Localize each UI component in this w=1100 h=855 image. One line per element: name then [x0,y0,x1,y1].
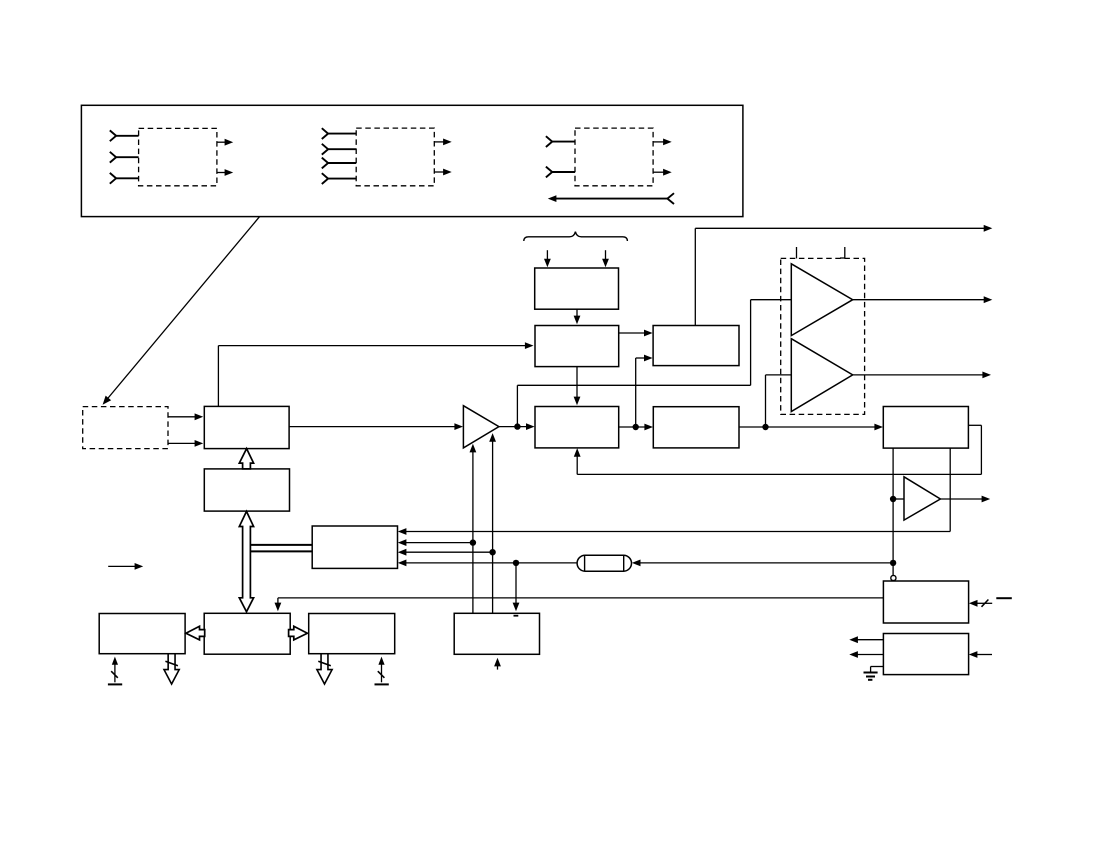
hollow arrow box3 to boxR [289,626,308,640]
output arrow 2 of block 3 [653,169,672,176]
bus arrow with slash into boxG right [969,600,992,607]
control line D with filter pill to box4 [398,555,893,571]
lone arrow at left middle [108,563,143,570]
top output wire from boxC [695,225,992,326]
boxB: second middle block [535,326,619,367]
input pin 4 of block 2 [322,173,356,184]
boxH output arrow 1 [849,636,883,643]
output arrow 2 of block 1 [217,169,233,176]
boxH output arrow 2 [849,651,883,658]
control line C from amp control 2 to box4 [398,549,496,556]
bus down-arrow with slash under boxR [317,654,332,684]
small monitor amp triangle [904,477,940,520]
riser from boxD-boxE wire to boxC [636,355,653,427]
box3: bottom middle block [204,613,290,654]
output arrow 1 of block 1 [217,139,233,146]
wire arrow dashed-box to box1 (upper) [168,413,203,420]
down arrow 2 into boxA [602,250,609,267]
open circle at boxG top [891,575,896,580]
boxF: right block [883,407,968,449]
boxD: DAC core block [535,407,619,448]
curly brace over boxA [524,232,628,241]
box1: main processing block [204,406,289,448]
wire junction riser to upper amp1 input [517,300,791,427]
dashed box: input block 1 [139,128,217,185]
boxE: block right of boxD [653,407,739,448]
wire junction to monitor amp input [893,498,904,500]
dashed box: input block 2 [356,128,434,186]
input pin 3 of block 1 [110,173,139,184]
input pin 2 of block 1 [110,152,139,163]
pin arrow with slash under boxR [375,657,389,685]
output arrow 1 of block 3 [653,139,672,146]
boxC: block right of boxB [653,326,739,366]
leftover dash inside bottom box [514,615,519,617]
amp2 output wire [853,372,991,379]
monitor amp output wire [940,496,990,503]
bottom box: clock block [454,613,539,654]
input pin 2 of block 3 [546,167,575,178]
down wire from line D junction into bottom box [513,563,520,611]
dashed box: input block 3 [575,128,653,186]
vertical wire from boxF bottom (right) to line A [949,448,951,531]
vertical control line 1 into amp bottom [470,444,477,614]
boxR: bottom right block [309,614,395,654]
pin arrow with slash under boxL [108,657,122,685]
wire boxB to boxD [574,367,581,406]
wire box1 to amp input [289,423,463,430]
output arrow 1 of block 2 [434,139,451,146]
wire boxE to boxF with junction [739,424,883,431]
amp1 triangle (upper output driver) [791,264,852,336]
interpolator amp triangle [463,406,499,448]
up arrow into bottom box [494,658,501,670]
return wire with left arrow and right fork [548,193,674,204]
bus down-arrow with slash under boxL [164,654,179,684]
boxA: top middle block [535,268,619,309]
outer enclosure box (top) [81,105,743,216]
box2: block below box1 [204,469,289,511]
boxH: power block [883,634,968,675]
amp2 triangle (lower output driver) [791,339,852,412]
diagonal pointer line from enclosure to dashed box below [100,217,260,408]
wire boxA to boxB [574,309,581,324]
dashed box around output amps [781,258,865,414]
hollow arrow box3 to boxL [186,626,205,640]
hollow arrow box2 to box1 [239,449,253,469]
long wire from boxG to box3 top [275,598,884,611]
arrow into boxH right [969,651,992,658]
input pin 1 of block 2 [322,128,356,139]
double bus lines box4 to vertical arrow [250,545,312,552]
output arrow 2 of block 2 [434,169,451,176]
riser from boxE wire to lower amp2 input [766,375,792,427]
down arrow 1 into boxA [544,250,551,267]
input pin 1 of block 1 [110,130,139,141]
ground symbol [864,667,884,680]
tick mark 1 above amp box [796,247,798,258]
input pin 2 of block 2 [322,144,356,155]
wire from box1 top to boxB [218,342,533,406]
vertical wire from boxF bottom (left) with junctions [890,448,896,575]
input pin 3 of block 2 [322,158,356,169]
boxG: serial interface block [883,581,968,623]
dashed box: left front-end [83,407,168,449]
double-headed hollow arrow box2 to box3 [239,511,253,611]
feedback wire boxF to boxD bottom [574,425,982,474]
amp output wire to boxD with junction [499,423,535,430]
wire boxD to boxE with junction [619,424,653,431]
tick mark 2 above amp box [840,247,845,258]
wire boxB to boxC [619,330,653,337]
control line A from boxF riser to box4 [398,528,950,535]
control line B from amp control 1 to box4 [398,539,476,546]
amp1 output wire [853,296,993,303]
vertical control line 2 into amp bottom [489,433,496,613]
wire arrow dashed-box to box1 (lower) [168,440,203,447]
dash mark right of boxG [996,597,1012,599]
box4: control block [312,526,397,568]
boxL: bottom left block [99,614,185,654]
input pin 1 of block 3 [546,136,575,147]
